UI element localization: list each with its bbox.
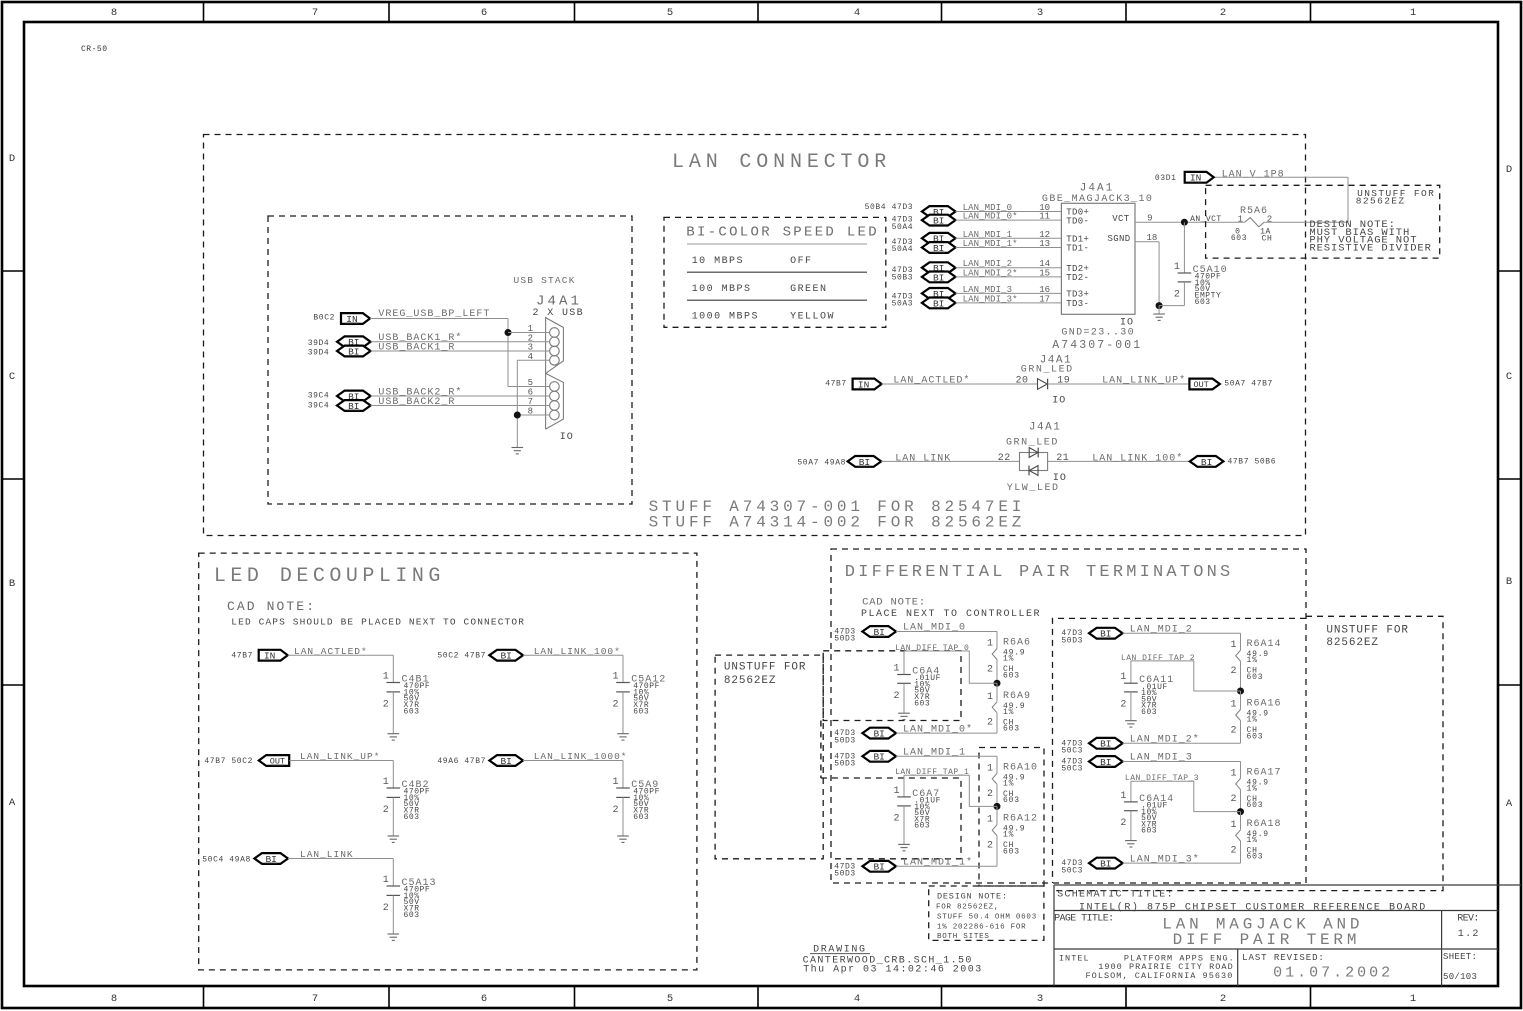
svg-text:1: 1	[1120, 791, 1126, 802]
wire led pin 21 to LAN_LINK_100*	[1048, 460, 1190, 462]
svg-text:50A4: 50A4	[892, 245, 914, 254]
port BI LAN_LINK_100* (led decoupling)	[489, 650, 523, 662]
svg-text:603: 603	[1003, 671, 1020, 680]
LED DECOUPLING dashed box	[199, 553, 697, 970]
svg-text:3: 3	[1037, 993, 1043, 1005]
resistor R6A12	[992, 806, 997, 866]
svg-text:1%: 1%	[1003, 831, 1014, 840]
svg-text:13: 13	[1039, 239, 1050, 249]
port IN LAN_ACTLED*	[853, 379, 882, 391]
svg-text:1%: 1%	[1247, 716, 1258, 725]
svg-text:4: 4	[854, 7, 860, 19]
wire LAN_MDI_2*	[1123, 742, 1241, 744]
svg-text:1: 1	[383, 672, 389, 683]
port BI LAN_MDI_1* (magjack)	[922, 242, 956, 254]
svg-text:USB_BACK1_R: USB_BACK1_R	[378, 343, 455, 354]
port IN LAN_V_1P8	[1185, 172, 1214, 184]
svg-text:USB_BACK2_R: USB_BACK2_R	[378, 397, 455, 408]
svg-text:82562EZ: 82562EZ	[724, 675, 777, 687]
svg-text:50A4: 50A4	[892, 223, 914, 232]
resistor R6A10	[992, 756, 997, 806]
svg-text:LAN CONNECTOR: LAN CONNECTOR	[672, 151, 891, 174]
svg-text:LAN_LINK_UP*: LAN_LINK_UP*	[1102, 375, 1186, 387]
diode YLW_LED (row2 bottom)	[1029, 466, 1038, 476]
svg-text:YELLOW: YELLOW	[790, 311, 835, 322]
svg-text:603: 603	[1003, 796, 1020, 805]
svg-text:IO: IO	[1052, 396, 1066, 407]
svg-text:603: 603	[1247, 801, 1264, 810]
port BI LAN_MDI_2*	[1089, 738, 1123, 750]
svg-text:603: 603	[1003, 848, 1020, 857]
svg-text:1: 1	[987, 692, 993, 703]
svg-text:2: 2	[1267, 215, 1272, 225]
wire to C5A13	[288, 858, 393, 860]
svg-text:CAD NOTE:: CAD NOTE:	[227, 599, 316, 614]
svg-text:603: 603	[1195, 298, 1211, 307]
svg-text:1: 1	[893, 786, 899, 797]
svg-text:50D3: 50D3	[834, 760, 856, 769]
svg-text:1000 MBPS: 1000 MBPS	[692, 311, 759, 322]
wire LAN_MDI_0*	[896, 732, 997, 734]
svg-text:GREEN: GREEN	[790, 284, 827, 295]
port OUT LAN_LINK_UP*	[1189, 379, 1219, 391]
svg-text:603: 603	[404, 813, 420, 822]
svg-text:47B7 50C2: 47B7 50C2	[204, 757, 253, 766]
svg-text:8: 8	[111, 7, 117, 19]
svg-text:SCHEMATIC TITLE:: SCHEMATIC TITLE:	[1057, 889, 1174, 900]
port BI LAN_MDI_2 (magjack)	[922, 262, 956, 274]
svg-text:BI-COLOR SPEED LED: BI-COLOR SPEED LED	[686, 225, 879, 241]
svg-text:603: 603	[404, 707, 420, 716]
BI-COLOR SPEED LED dashed box	[664, 217, 886, 327]
svg-text:2: 2	[893, 691, 899, 702]
svg-text:C: C	[1506, 371, 1512, 383]
svg-text:50A7 49A8: 50A7 49A8	[797, 459, 846, 468]
svg-text:LED CAPS SHOULD BE PLACED NEXT: LED CAPS SHOULD BE PLACED NEXT TO CONNEC…	[231, 617, 525, 628]
port BI LAN_MDI_1	[862, 751, 896, 763]
wire LAN_MDI_2* to pin 15	[956, 276, 1062, 278]
wire LAN_DIFF_TAP_3	[1131, 781, 1241, 811]
port BI LAN_MDI_3 (magjack)	[922, 288, 956, 300]
svg-text:LAN_ACTLED*: LAN_ACTLED*	[893, 375, 970, 387]
svg-text:20: 20	[1015, 375, 1028, 386]
diode GRN_LED (row1)	[1038, 379, 1048, 390]
wire LAN_ACTLED* to led pin 20	[882, 383, 1038, 385]
svg-text:10 MBPS: 10 MBPS	[692, 256, 744, 267]
svg-text:2: 2	[1230, 725, 1236, 736]
capacitor C6A4	[897, 651, 911, 713]
svg-text:5: 5	[667, 993, 673, 1005]
connector J4A1 usb stack body (lower)	[546, 373, 564, 429]
svg-text:LAN_LINK_100*: LAN_LINK_100*	[1092, 452, 1183, 464]
svg-text:REV:: REV:	[1457, 914, 1479, 925]
svg-text:6: 6	[481, 993, 487, 1005]
svg-text:1: 1	[1230, 768, 1236, 779]
svg-text:47B7 50B6: 47B7 50B6	[1228, 458, 1277, 467]
svg-text:TD1-: TD1-	[1066, 244, 1089, 254]
svg-text:2: 2	[1220, 7, 1226, 19]
svg-text:1: 1	[987, 815, 993, 826]
svg-text:1: 1	[383, 875, 389, 886]
port BI LAN_LINK_1000* (led decoupling)	[489, 755, 523, 767]
svg-text:50A3: 50A3	[892, 300, 914, 309]
junction dot	[994, 803, 1001, 810]
svg-text:50C3: 50C3	[1061, 747, 1083, 756]
junction dot pin1	[505, 329, 512, 336]
junction dot sgnd	[1156, 302, 1163, 309]
wire LAN_DIFF_TAP_2	[1131, 661, 1241, 691]
svg-text:1: 1	[1120, 672, 1126, 683]
svg-text:47B7: 47B7	[231, 652, 253, 661]
svg-text:100 MBPS: 100 MBPS	[692, 284, 752, 295]
wire LAN_DIFF_TAP_1	[904, 775, 997, 806]
resistor R6A16	[1236, 691, 1241, 743]
svg-text:GRN_LED: GRN_LED	[1006, 438, 1059, 449]
svg-text:603: 603	[1141, 827, 1157, 836]
svg-text:2: 2	[1220, 993, 1226, 1005]
svg-text:1: 1	[987, 639, 993, 650]
svg-text:LAN_MDI_0*: LAN_MDI_0*	[963, 212, 1018, 222]
svg-text:A74307-001: A74307-001	[1052, 339, 1142, 352]
svg-text:R6A16: R6A16	[1247, 699, 1282, 710]
svg-text:1%: 1%	[1247, 656, 1258, 665]
svg-text:1%: 1%	[1247, 784, 1258, 793]
svg-text:R6A9: R6A9	[1003, 691, 1031, 702]
wire LAN_MDI_0 to pin 10	[956, 211, 1062, 213]
wire LAN_MDI_2 to pin 14	[956, 267, 1062, 269]
wire pin 3	[371, 350, 550, 352]
svg-text:01.07.2002: 01.07.2002	[1273, 965, 1393, 982]
svg-text:2: 2	[383, 805, 389, 816]
svg-text:1: 1	[1410, 7, 1416, 19]
svg-text:50D3: 50D3	[834, 870, 856, 879]
wire pin 18 (SGND)	[1135, 241, 1159, 243]
svg-text:TD3-: TD3-	[1066, 299, 1089, 309]
svg-text:R6A6: R6A6	[1003, 638, 1031, 649]
port IN LAN_ACTLED* (led decoupling)	[259, 650, 288, 662]
svg-text:2: 2	[1174, 289, 1180, 300]
svg-text:50D3: 50D3	[834, 635, 856, 644]
svg-text:16: 16	[1039, 285, 1050, 295]
wire led pin 19 to LAN_LINK_UP*	[1048, 383, 1190, 385]
svg-text:3: 3	[1037, 7, 1043, 19]
wire LAN_MDI_0* to pin 11	[956, 219, 1062, 221]
svg-text:39D4: 39D4	[308, 339, 330, 348]
svg-text:50C3: 50C3	[1061, 866, 1083, 875]
port BI LAN_MDI_3	[1089, 756, 1123, 768]
svg-text:2: 2	[1120, 818, 1126, 829]
svg-text:2: 2	[612, 699, 618, 710]
port IN VREG_USB_BP_LEFT	[341, 313, 370, 325]
port BI USB_BACK2_R	[337, 400, 371, 412]
svg-text:LED DECOUPLING: LED DECOUPLING	[214, 565, 445, 588]
svg-text:4: 4	[854, 993, 860, 1005]
svg-text:50C3: 50C3	[1061, 765, 1083, 774]
svg-text:BOTH SITES: BOTH SITES	[937, 933, 990, 941]
svg-text:DESIGN NOTE:: DESIGN NOTE:	[937, 891, 1008, 901]
junction dot pin8/gnd	[514, 412, 521, 419]
wire to C5A9	[523, 760, 623, 762]
svg-text:UNSTUFF FOR: UNSTUFF FOR	[1326, 625, 1409, 637]
svg-text:2: 2	[383, 699, 389, 710]
svg-text:603: 603	[1247, 853, 1264, 862]
svg-text:2: 2	[987, 664, 993, 675]
port BI LAN_MDI_2	[1089, 628, 1123, 640]
resistor R6A14	[1236, 633, 1241, 691]
svg-text:DIFF PAIR TERM: DIFF PAIR TERM	[1173, 931, 1361, 949]
unstuff box right column	[1053, 618, 1307, 883]
wire LAN_MDI_1*	[896, 865, 997, 867]
junction dot	[1237, 808, 1244, 815]
wire LAN_MDI_3*	[1123, 862, 1241, 864]
svg-text:J4A1: J4A1	[1029, 422, 1061, 434]
svg-text:603: 603	[1247, 732, 1264, 741]
svg-text:B: B	[9, 578, 15, 590]
diode GRN_LED (row2 top)	[1029, 448, 1038, 458]
svg-text:PLACE NEXT TO CONTROLLER: PLACE NEXT TO CONTROLLER	[861, 609, 1041, 620]
svg-text:50D3: 50D3	[1061, 636, 1083, 645]
svg-text:LAN_MDI_0: LAN_MDI_0	[903, 623, 966, 634]
unstuff box around C6A7	[821, 778, 961, 859]
svg-text:SHEET:: SHEET:	[1443, 952, 1477, 962]
svg-text:GND=23..30: GND=23..30	[1061, 327, 1135, 338]
svg-text:15: 15	[1039, 268, 1050, 278]
wire pin 7	[371, 405, 550, 407]
svg-text:1% 202286-616 FOR: 1% 202286-616 FOR	[937, 924, 1026, 932]
svg-text:49A6 47B7: 49A6 47B7	[437, 757, 486, 766]
resistor R5A6 (horizontal)	[1245, 218, 1264, 227]
port BI LAN_MDI_0*	[862, 728, 896, 740]
svg-text:TD3+: TD3+	[1066, 290, 1089, 300]
svg-text:17: 17	[1039, 294, 1050, 304]
svg-text:YLW_LED: YLW_LED	[1007, 483, 1060, 494]
unstuff box around C6A4	[823, 651, 961, 721]
unstuff box left	[715, 655, 823, 859]
svg-text:LAN_MDI_2*: LAN_MDI_2*	[963, 268, 1018, 278]
wire LAN_MDI_1* to pin 13	[956, 247, 1062, 249]
svg-text:USB STACK: USB STACK	[514, 275, 576, 286]
svg-text:603: 603	[404, 911, 420, 920]
svg-text:39C4: 39C4	[308, 402, 330, 411]
svg-text:1: 1	[383, 777, 389, 788]
unstuff note box (R5A6)	[1206, 185, 1440, 258]
dual led body	[1020, 453, 1048, 471]
port BI USB_BACK1_R*	[337, 336, 371, 348]
svg-text:1%: 1%	[1003, 708, 1014, 717]
svg-text:R6A14: R6A14	[1247, 639, 1282, 650]
svg-text:INTEL(R) 875P CHIPSET CUSTOMER: INTEL(R) 875P CHIPSET CUSTOMER REFERENCE…	[1079, 902, 1427, 914]
svg-text:LAN_DIFF_TAP_2: LAN_DIFF_TAP_2	[1121, 654, 1195, 663]
capacitor C6A14	[1124, 781, 1138, 840]
wire pin 1	[508, 332, 550, 334]
svg-text:603: 603	[914, 699, 930, 708]
unstuff outline left edge (ports)	[820, 721, 822, 779]
svg-text:2: 2	[987, 718, 993, 729]
svg-text:2: 2	[1230, 666, 1236, 677]
wire LAN_DIFF_TAP_0	[904, 651, 997, 683]
stuff box around R6A10/R6A12	[979, 748, 1044, 887]
svg-text:603: 603	[1141, 708, 1157, 717]
svg-text:1%: 1%	[1003, 779, 1014, 788]
resistor R6A17	[1236, 762, 1241, 812]
svg-text:50D3: 50D3	[834, 736, 856, 745]
svg-text:50C4 49A8: 50C4 49A8	[202, 856, 251, 865]
wire LAN_MDI_3* to pin 17	[956, 302, 1062, 304]
svg-text:1: 1	[1238, 215, 1243, 225]
svg-text:2: 2	[893, 813, 899, 824]
svg-text:UNSTUFF FOR: UNSTUFF FOR	[724, 662, 807, 674]
svg-text:VCT: VCT	[1112, 214, 1130, 224]
svg-text:STUFF A74314-002 FOR 82562EZ: STUFF A74314-002 FOR 82562EZ	[649, 514, 1026, 532]
svg-text:1: 1	[893, 664, 899, 675]
svg-text:1: 1	[612, 672, 618, 683]
svg-text:Thu Apr 03 14:02:46 2003: Thu Apr 03 14:02:46 2003	[803, 963, 983, 975]
svg-text:21: 21	[1056, 453, 1069, 464]
svg-text:39D4: 39D4	[308, 349, 330, 358]
svg-text:39C4: 39C4	[308, 391, 330, 400]
svg-text:1: 1	[612, 777, 618, 788]
capacitor C5A12	[616, 655, 630, 734]
port BI LAN_MDI_0 (magjack)	[922, 206, 956, 218]
svg-text:LAN_LINK: LAN_LINK	[895, 453, 951, 464]
magjack J4A1 body	[1061, 203, 1135, 314]
svg-text:R6A12: R6A12	[1003, 814, 1038, 825]
svg-text:603: 603	[1003, 725, 1020, 734]
svg-text:LAN_DIFF_TAP_1: LAN_DIFF_TAP_1	[895, 768, 969, 777]
capacitor C5A9	[616, 761, 630, 837]
svg-text:11: 11	[1039, 212, 1050, 222]
svg-text:INTEL: INTEL	[1059, 953, 1090, 963]
svg-text:7: 7	[312, 993, 318, 1005]
port OUT LAN_LINK_UP* (led decoupling)	[259, 755, 289, 767]
svg-text:LAN_V_1P8: LAN_V_1P8	[1222, 170, 1285, 181]
table rule 2	[687, 271, 867, 273]
wire pin 4 to gnd rail	[517, 359, 549, 361]
svg-text:1%: 1%	[1003, 655, 1014, 664]
svg-text:D: D	[9, 153, 15, 165]
svg-text:TD2-: TD2-	[1066, 273, 1089, 283]
svg-text:GRN_LED: GRN_LED	[1021, 365, 1074, 376]
port BI LAN_MDI_1 (magjack)	[922, 233, 956, 245]
svg-text:1.2: 1.2	[1458, 929, 1480, 940]
svg-text:R6A17: R6A17	[1247, 767, 1282, 778]
svg-text:2 X USB: 2 X USB	[533, 308, 585, 319]
resistor R6A18	[1236, 812, 1241, 864]
port BI LAN_MDI_0* (magjack)	[922, 215, 956, 227]
port BI LAN_MDI_0	[862, 626, 896, 638]
svg-text:1%: 1%	[1247, 836, 1258, 845]
svg-text:603: 603	[633, 813, 649, 822]
DIFFERENTIAL PAIR TERMINATONS dashed box	[831, 549, 1306, 883]
svg-text:LAST REVISED:: LAST REVISED:	[1242, 953, 1325, 963]
svg-text:2: 2	[612, 805, 618, 816]
capacitor C4B1	[387, 655, 401, 734]
svg-text:19: 19	[1057, 375, 1070, 386]
svg-text:82562EZ: 82562EZ	[1356, 195, 1406, 206]
svg-text:A: A	[1506, 798, 1513, 810]
wire LAN_LINK to led pin 22	[881, 460, 1019, 462]
svg-text:47B7: 47B7	[825, 379, 847, 388]
wire pin 6	[371, 395, 550, 397]
wire pin 8	[517, 414, 549, 416]
port BI LAN_MDI_3*	[1089, 858, 1123, 870]
svg-text:LAN_MDI_1*: LAN_MDI_1*	[963, 239, 1018, 249]
svg-text:50A7 47B7: 50A7 47B7	[1224, 379, 1273, 388]
ground (usb stack)	[512, 448, 524, 454]
port BI USB_BACK1_R	[337, 346, 371, 358]
connector J4A1 usb stack body (upper)	[546, 318, 564, 374]
svg-text:R6A10: R6A10	[1003, 762, 1038, 773]
unstuff note box right	[1054, 616, 1443, 890]
svg-text:R6A18: R6A18	[1247, 819, 1282, 830]
svg-text:LAN_MDI_1: LAN_MDI_1	[903, 748, 966, 759]
svg-text:2: 2	[1230, 846, 1236, 857]
svg-text:SGND: SGND	[1107, 234, 1130, 244]
junction dot	[994, 680, 1001, 687]
capacitor C5A13	[387, 859, 401, 935]
svg-text:03D1: 03D1	[1155, 174, 1177, 183]
svg-text:1: 1	[1230, 700, 1236, 711]
svg-text:C: C	[9, 371, 15, 383]
capacitor C4B2	[387, 761, 401, 837]
title block	[1054, 885, 1521, 986]
table rule 3	[687, 299, 867, 301]
svg-text:PAGE TITLE:: PAGE TITLE:	[1054, 914, 1113, 925]
svg-text:1: 1	[1230, 820, 1236, 831]
USB STACK dashed box	[268, 216, 632, 504]
svg-text:5: 5	[667, 7, 673, 19]
svg-text:J4A1: J4A1	[1080, 183, 1114, 195]
port BI LAN_LINK_100*	[1190, 456, 1224, 468]
wire C5A10 bottom	[1183, 282, 1185, 306]
svg-text:CH: CH	[1262, 234, 1273, 243]
wire LAN_MDI_1 to pin 12	[956, 237, 1062, 239]
wire R5A6 pin2 to LAN_V_1P8	[1264, 221, 1348, 223]
svg-text:D: D	[1506, 164, 1512, 176]
svg-text:STUFF 50.4 OHM 0603: STUFF 50.4 OHM 0603	[937, 914, 1037, 922]
junction dot AN_VCT	[1181, 219, 1188, 226]
capacitor C6A11	[1124, 661, 1138, 721]
svg-text:2: 2	[1120, 699, 1126, 710]
svg-text:LAN_MDI_3: LAN_MDI_3	[1130, 753, 1193, 764]
svg-text:2: 2	[1230, 794, 1236, 805]
port BI LAN_LINK (led decoupling)	[254, 853, 288, 865]
svg-text:22: 22	[998, 453, 1011, 464]
resistor R6A9	[992, 683, 997, 733]
wire to C4B1	[288, 654, 394, 656]
svg-text:B: B	[1506, 576, 1512, 588]
svg-text:1: 1	[1410, 993, 1416, 1005]
wire LAN_MDI_0	[896, 631, 997, 633]
connector pin contact circles 1-8	[550, 328, 560, 338]
LAN CONNECTOR section dashed box	[204, 135, 1306, 536]
svg-text:1: 1	[1174, 262, 1180, 273]
svg-text:B0C2: B0C2	[313, 313, 335, 322]
wire LAN_MDI_3 to pin 16	[956, 292, 1062, 294]
wire to C5A12	[523, 654, 623, 656]
svg-text:LAN_MDI_3*: LAN_MDI_3*	[963, 294, 1018, 304]
svg-text:1: 1	[987, 763, 993, 774]
svg-text:6: 6	[481, 7, 487, 19]
wire pin 9 (VCT) to AN_VCT	[1135, 221, 1245, 223]
svg-text:R5A6: R5A6	[1240, 206, 1268, 217]
port BI LAN_MDI_1*	[862, 861, 896, 873]
wire sgnd to cap bottom	[1159, 305, 1184, 307]
svg-text:1: 1	[1230, 640, 1236, 651]
svg-text:CAD NOTE:: CAD NOTE:	[862, 597, 926, 609]
design note box (stuff 50.4 ohm)	[929, 886, 1044, 940]
svg-text:LAN_MDI_3: LAN_MDI_3	[963, 285, 1013, 295]
